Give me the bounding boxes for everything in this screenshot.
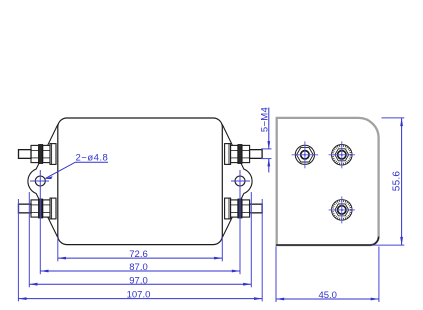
round terminal B (knurled): [329, 141, 355, 168]
dimension 97.0: [29, 192, 251, 287]
svg-text:55.6: 55.6: [392, 171, 403, 192]
right mounting flange tab: [222, 125, 252, 238]
hole centerline right vertical / 87.0 extension: [239, 170, 241, 274]
dimension 87.0: [40, 262, 240, 273]
mounting hole left: [35, 176, 45, 186]
dimension 55.6: [372, 118, 404, 245]
side view plate bottom edge: [276, 237, 379, 246]
dimension 45.0: [276, 247, 379, 303]
dimension 107.0: [18, 199, 262, 301]
svg-text:5−M4: 5−M4: [259, 107, 270, 132]
hole centerline right horizontal: [231, 180, 250, 182]
round terminal A (plain): [292, 141, 318, 168]
terminal T1 top-left: [19, 144, 57, 165]
dimension 5-M4: [259, 107, 271, 173]
side view plate: [277, 118, 379, 245]
round terminal C (knurled): [329, 196, 355, 223]
hole centerline left vertical / 87.0 extension: [39, 170, 41, 274]
mounting hole right: [235, 176, 245, 186]
left mounting flange tab: [28, 125, 58, 238]
svg-text:87.0: 87.0: [129, 262, 148, 273]
terminal T2 bottom-left: [19, 198, 57, 219]
terminal T4 bottom-right: [225, 198, 263, 219]
svg-text:45.0: 45.0: [318, 290, 337, 301]
terminal T3 top-right: [225, 144, 263, 165]
filter body outline: [58, 118, 223, 245]
leader 2-04.8: [45, 152, 109, 179]
svg-text:2−ø4.8: 2−ø4.8: [76, 152, 109, 163]
svg-text:97.0: 97.0: [129, 275, 148, 286]
hole centerline left horizontal: [30, 180, 49, 182]
svg-text:107.0: 107.0: [127, 290, 151, 301]
svg-text:72.6: 72.6: [129, 249, 148, 260]
dimension 72.6: [58, 237, 223, 261]
